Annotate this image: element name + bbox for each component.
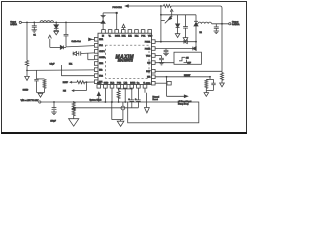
svg-text:VCC: VCC (146, 55, 151, 57)
svg-text:3.3V/2A: 3.3V/2A (232, 23, 240, 26)
svg-text:RESET: RESET (184, 75, 191, 77)
svg-text:Reset: Reset (153, 98, 159, 101)
svg-text:100µF: 100µF (50, 120, 56, 122)
svg-text:PFO: PFO (146, 83, 151, 85)
svg-text:MR: MR (147, 77, 151, 79)
svg-text:BST2: BST2 (130, 83, 136, 85)
svg-text:µP Reset Input: µP Reset Input (178, 100, 192, 103)
svg-text:DL1: DL1 (69, 63, 72, 65)
svg-text:VDD: VDD (148, 35, 153, 37)
svg-text:CMP1: CMP1 (99, 51, 105, 53)
svg-text:PGOOD1: PGOOD1 (113, 7, 123, 9)
svg-text:SGND: SGND (23, 90, 29, 92)
svg-text:PFI: PFI (63, 91, 66, 93)
svg-text:C-: C- (143, 83, 145, 85)
svg-text:PGD1: PGD1 (145, 41, 151, 43)
svg-text:PGD2: PGD2 (145, 48, 151, 50)
svg-text:RSUP: RSUP (63, 82, 69, 84)
svg-text:VIN = 4.5V TO 23V: VIN = 4.5V TO 23V (21, 100, 39, 102)
svg-text:C1: C1 (33, 34, 35, 36)
svg-text:D2: D2 (200, 32, 202, 34)
svg-text:2.5V/2A: 2.5V/2A (10, 23, 17, 26)
svg-text:MAX5072: MAX5072 (118, 59, 133, 63)
svg-text:CLK: CLK (97, 83, 102, 85)
svg-text:BST1: BST1 (115, 35, 121, 37)
svg-text:SGND: SGND (99, 57, 105, 59)
svg-text:Dump Deep: Dump Deep (178, 103, 190, 105)
svg-text:System Clock: System Clock (90, 98, 102, 101)
svg-text:GND: GND (104, 83, 109, 85)
svg-text:Cable Out: Cable Out (72, 40, 81, 43)
svg-text:0.1µF: 0.1µF (50, 64, 56, 66)
